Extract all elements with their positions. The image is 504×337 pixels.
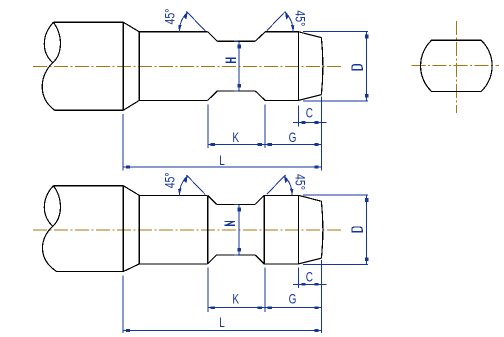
medium cylinder top edge left xyxy=(139,194,207,196)
svg-text:45°: 45° xyxy=(162,172,178,188)
dim K-G shared ext xyxy=(264,104,266,148)
neck chamfer top left xyxy=(208,32,218,42)
svg-text:G: G xyxy=(289,291,297,307)
dim C arrow right xyxy=(314,121,318,124)
break curve lens xyxy=(44,22,53,63)
dim C ext left xyxy=(298,268,300,289)
tip end arc xyxy=(321,38,323,95)
dim D ext bottom xyxy=(303,100,368,102)
svg-text:C: C xyxy=(306,105,314,121)
dim K arrow right xyxy=(258,143,262,146)
medium cylinder bottom edge right xyxy=(265,99,298,101)
arc arrow left-top xyxy=(184,176,188,183)
neck chamfer bottom left xyxy=(208,91,218,101)
dim G line xyxy=(265,144,322,146)
big cylinder top edge xyxy=(53,21,123,23)
arc arrow right-bottom xyxy=(291,25,295,32)
chamfer callout leader right xyxy=(267,175,286,194)
groove edge left xyxy=(207,195,209,264)
dim D arrow down xyxy=(365,257,369,261)
dim K ext left xyxy=(207,104,209,148)
neck top flat xyxy=(217,203,256,205)
neck chamfer top right xyxy=(255,32,265,42)
arc arrow right-top xyxy=(285,12,289,19)
dim L arrow right xyxy=(314,166,318,169)
dim K ext left xyxy=(207,268,209,313)
dim N line xyxy=(238,204,240,255)
dim D ext bottom xyxy=(303,263,368,265)
groove edge right xyxy=(263,195,265,264)
arc arrow left-top xyxy=(184,12,188,19)
taper bottom xyxy=(123,264,139,272)
svg-text:45°: 45° xyxy=(162,8,178,24)
chamfer callout arc left xyxy=(179,12,187,32)
dim H arrow down xyxy=(237,84,241,88)
dim H tip dash top xyxy=(234,40,238,42)
dim G arrow left xyxy=(268,306,272,309)
dim N arrow down xyxy=(237,248,241,252)
dim K line xyxy=(208,307,265,309)
neck chamfer top left xyxy=(208,195,217,204)
break curve S xyxy=(42,22,60,110)
label D (rotated, drawn as strokes) xyxy=(352,227,362,232)
dim C ext right xyxy=(321,97,323,171)
tip chamfer top xyxy=(299,32,322,38)
neck top flat xyxy=(217,40,255,42)
chamfer callout leader left xyxy=(187,11,206,31)
dim G line xyxy=(265,307,322,309)
dim K arrow left xyxy=(211,306,215,309)
medium cylinder top edge left xyxy=(139,31,207,33)
dim L arrow left xyxy=(126,166,130,169)
neck chamfer bottom right xyxy=(255,91,265,101)
neck bottom flat xyxy=(217,254,256,256)
dim L ext left xyxy=(122,114,124,170)
dim C arrow right xyxy=(314,283,318,286)
dim L line xyxy=(123,166,322,168)
dim L ext left xyxy=(122,276,124,333)
medium cylinder bottom edge left xyxy=(139,263,207,265)
dim D line xyxy=(366,31,368,100)
dim D line xyxy=(366,195,368,264)
medium cylinder top edge right xyxy=(264,194,298,196)
medium cylinder bottom edge left xyxy=(139,99,207,101)
svg-text:45°: 45° xyxy=(292,174,308,190)
dim D arrow up xyxy=(365,35,369,39)
svg-text:G: G xyxy=(289,129,297,145)
dim N arrow up xyxy=(237,208,241,212)
neck chamfer bottom left xyxy=(208,255,217,264)
dim H line xyxy=(238,41,240,91)
arc arrow right-top xyxy=(284,176,288,183)
end view horizontal centerline xyxy=(411,65,499,67)
dim C line xyxy=(293,283,327,285)
dim G arrow right xyxy=(314,306,318,309)
neck chamfer bottom right xyxy=(255,255,264,264)
dim D ext top xyxy=(303,194,368,196)
dim G arrow right xyxy=(314,143,318,146)
chamfer callout leader right xyxy=(267,11,286,30)
tip shoulder edge xyxy=(298,32,300,101)
dim K-G shared ext xyxy=(264,268,266,313)
svg-text:K: K xyxy=(232,291,239,307)
dim C arrow left xyxy=(301,121,305,124)
dim H tip dash bottom xyxy=(234,90,238,92)
big cylinder top edge xyxy=(53,185,123,187)
tip chamfer bottom xyxy=(299,258,322,264)
tip chamfer top xyxy=(299,195,322,201)
medium cylinder bottom edge right xyxy=(264,263,298,265)
tip shoulder edge xyxy=(298,195,300,264)
dim H arrow up xyxy=(237,45,241,49)
dim L arrow right xyxy=(314,329,318,332)
medium cylinder top edge right xyxy=(265,31,298,33)
dim C arrow left xyxy=(301,283,305,286)
svg-text:L: L xyxy=(219,314,225,330)
arc arrow left-bottom xyxy=(178,189,182,196)
chamfer callout leader left xyxy=(187,175,206,195)
centerline xyxy=(33,229,342,231)
dim G arrow left xyxy=(268,143,272,146)
break curve S xyxy=(42,186,60,272)
svg-text:K: K xyxy=(232,129,239,145)
tip chamfer bottom xyxy=(299,95,322,101)
dim C line xyxy=(293,121,327,123)
end view outline circle with flats xyxy=(421,40,493,91)
dim K arrow right xyxy=(258,306,262,309)
dim D ext top xyxy=(303,30,368,32)
big cylinder right edge xyxy=(122,186,124,272)
label D (rotated, drawn as strokes) xyxy=(352,65,362,70)
tip end arc xyxy=(321,201,323,258)
svg-text:45°: 45° xyxy=(292,10,308,26)
arc arrow right-bottom xyxy=(290,189,294,196)
taper end edge xyxy=(138,32,140,101)
chamfer callout arc right xyxy=(284,176,292,196)
big cylinder bottom edge xyxy=(57,271,124,273)
chamfer callout arc right xyxy=(285,12,293,32)
arc arrow left-bottom xyxy=(178,25,182,32)
big cylinder bottom edge xyxy=(55,109,124,111)
neck bottom flat xyxy=(217,90,255,92)
dim L line xyxy=(123,329,322,331)
dim K arrow left xyxy=(211,143,215,146)
chamfer callout arc left xyxy=(179,176,187,196)
taper top xyxy=(123,186,139,196)
dim K line xyxy=(208,144,265,146)
big cylinder right edge xyxy=(122,22,124,110)
dim D arrow up xyxy=(365,198,369,202)
dim N tip dash top xyxy=(234,203,238,205)
taper end edge xyxy=(138,195,140,264)
neck chamfer top right xyxy=(255,195,264,204)
taper bottom xyxy=(123,100,139,110)
label N (rotated, drawn as strokes) xyxy=(225,221,235,225)
svg-text:L: L xyxy=(219,152,225,168)
taper top xyxy=(123,22,139,32)
dim L arrow left xyxy=(126,329,130,332)
label H (rotated, drawn as strokes) xyxy=(226,58,236,62)
dim D arrow down xyxy=(365,94,369,98)
end view vertical centerline xyxy=(455,21,457,113)
centerline xyxy=(33,65,342,67)
break curve lens xyxy=(44,186,53,227)
dim C ext left xyxy=(298,106,300,127)
svg-text:C: C xyxy=(306,269,314,285)
dim C ext right xyxy=(321,260,323,333)
dim N tip dash bottom xyxy=(234,254,238,256)
